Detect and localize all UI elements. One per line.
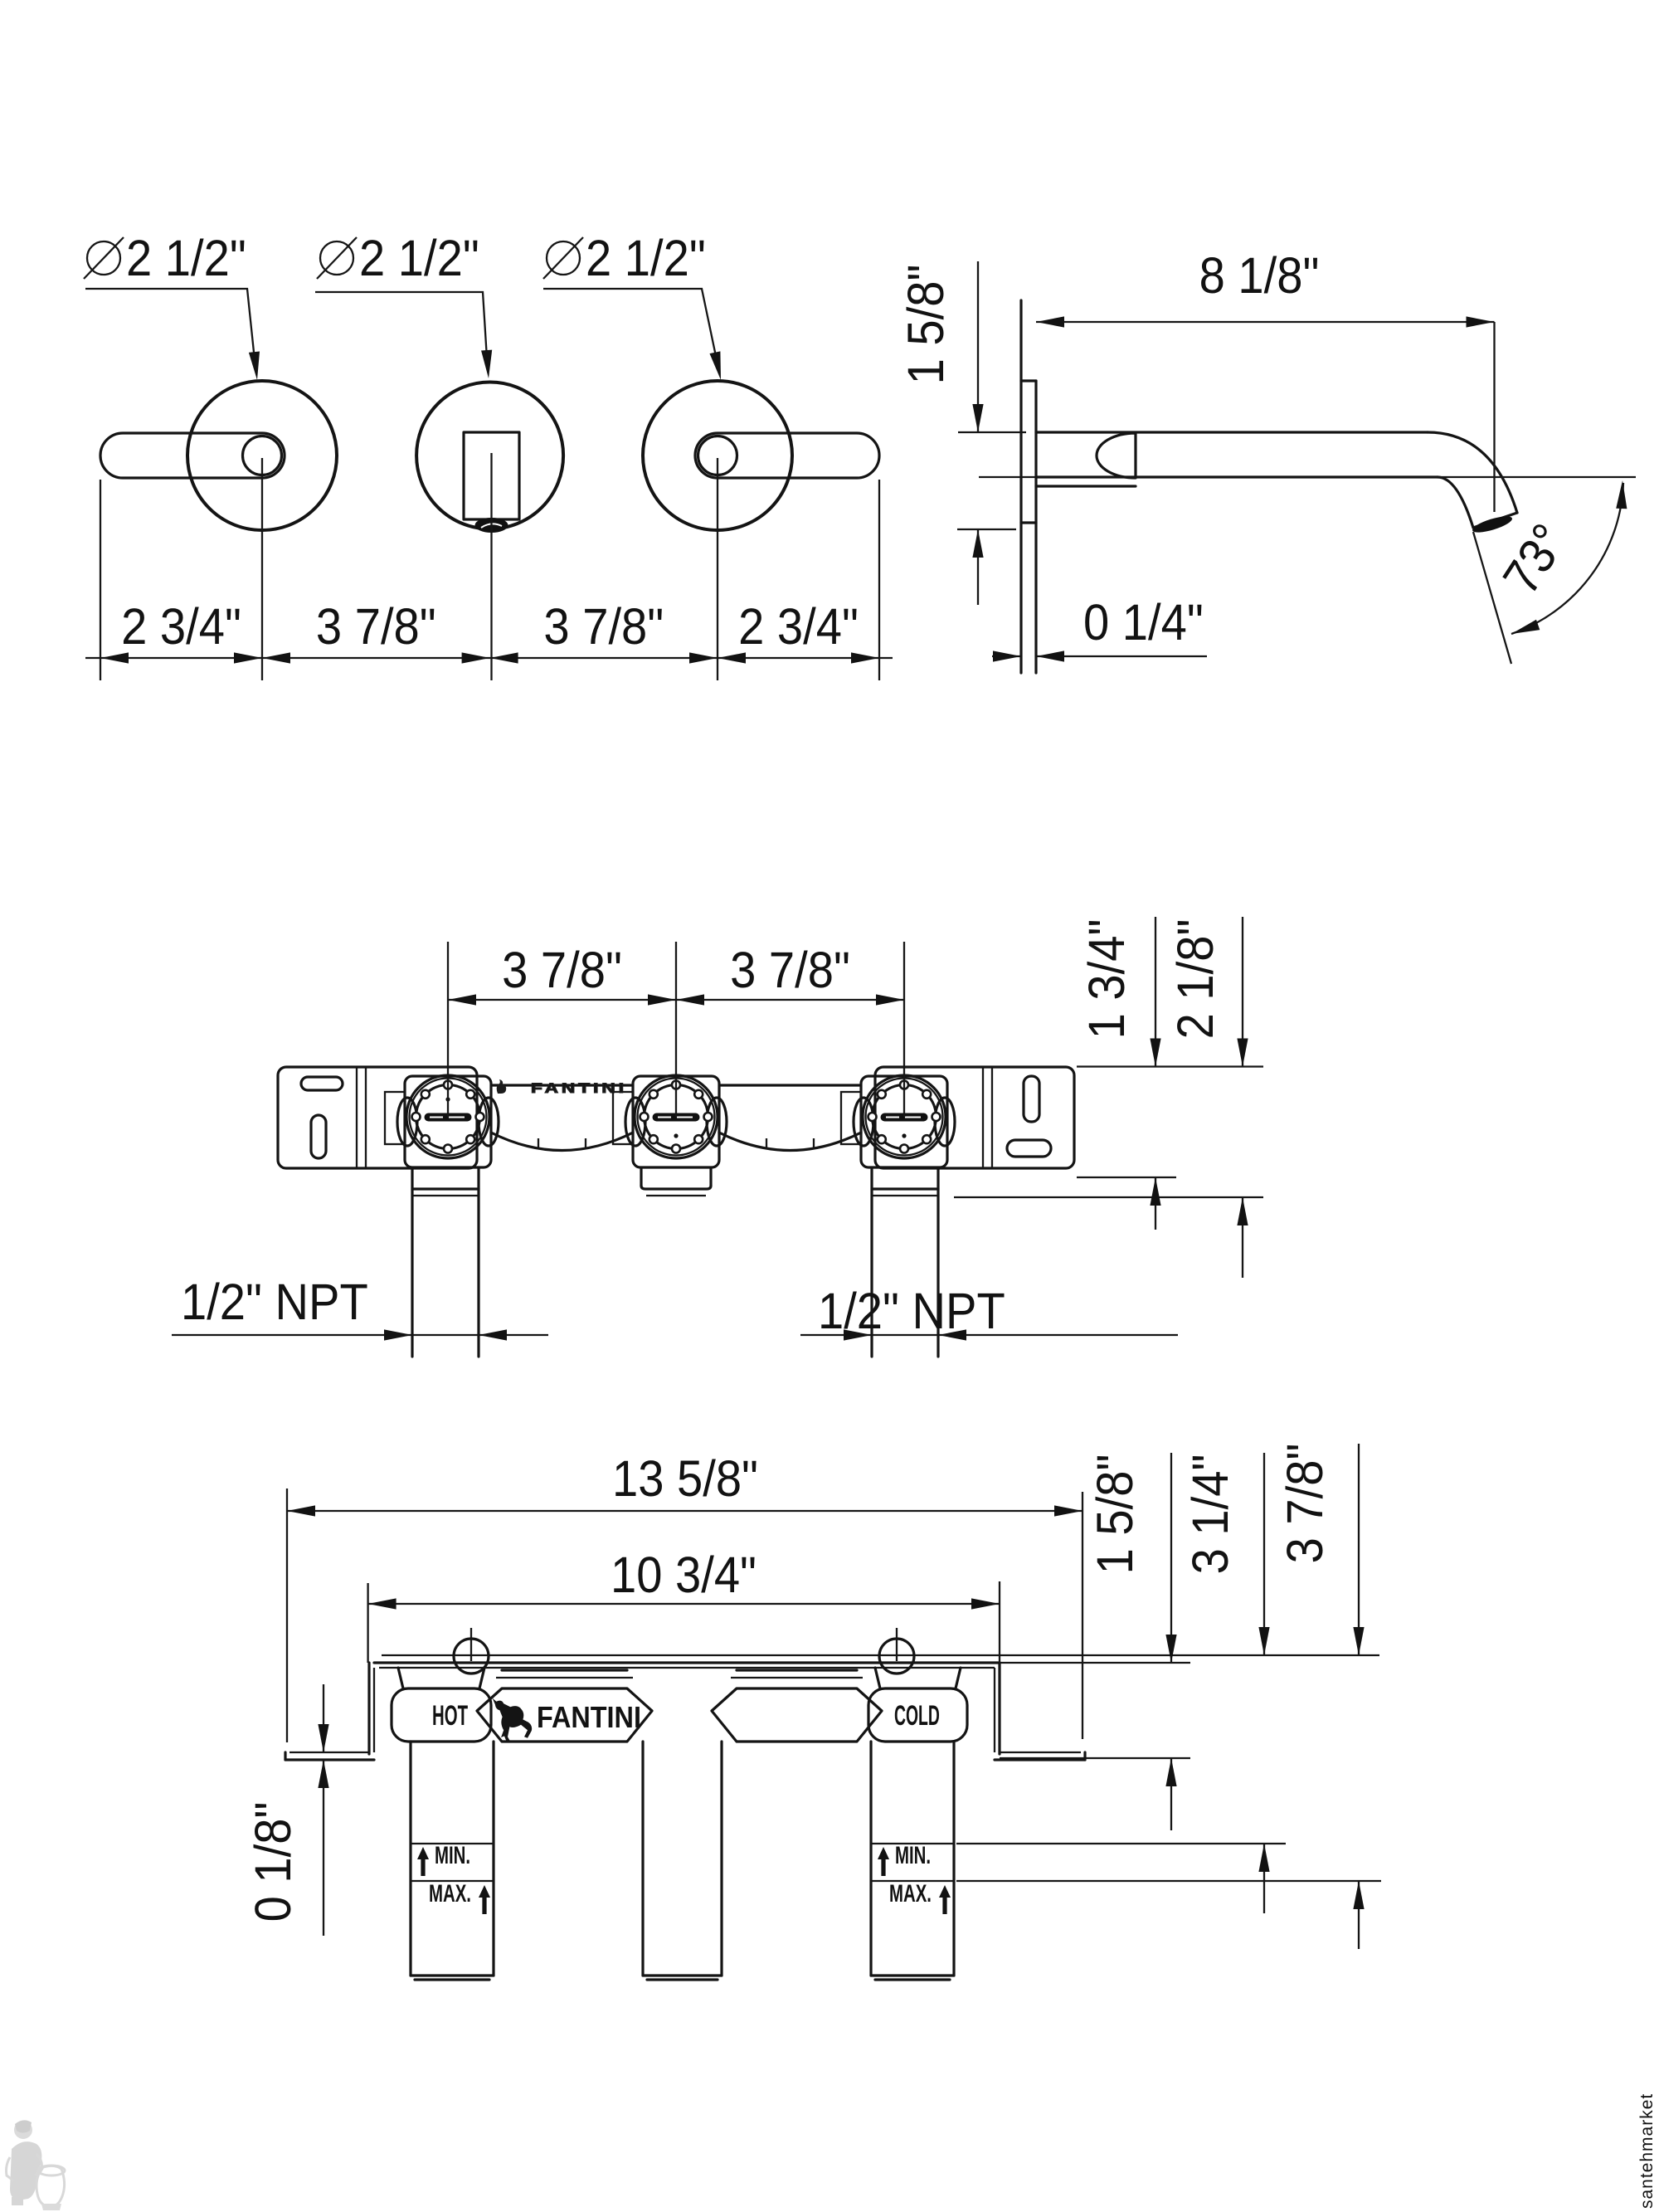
svg-text:3 7/8": 3 7/8" [316, 599, 436, 655]
svg-text:MIN.: MIN. [895, 1842, 931, 1869]
svg-text:COLD: COLD [894, 1699, 940, 1731]
svg-text:0 1/4": 0 1/4" [1083, 595, 1204, 651]
svg-text:2 1/2": 2 1/2" [586, 231, 706, 287]
svg-text:1 5/8": 1 5/8" [1087, 1454, 1144, 1575]
svg-text:1 5/8": 1 5/8" [898, 265, 955, 385]
svg-text:2 1/2": 2 1/2" [126, 231, 246, 287]
svg-text:2 1/8": 2 1/8" [1168, 919, 1224, 1040]
svg-text:MIN.: MIN. [435, 1842, 470, 1869]
svg-text:3 7/8": 3 7/8" [730, 943, 850, 999]
svg-text:10 3/4": 10 3/4" [611, 1547, 757, 1604]
svg-text:1/2" NPT: 1/2" NPT [818, 1284, 1005, 1340]
svg-text:MAX.: MAX. [429, 1880, 471, 1907]
svg-text:3 7/8": 3 7/8" [1277, 1444, 1334, 1564]
svg-text:HOT: HOT [432, 1700, 468, 1732]
svg-text:2 3/4": 2 3/4" [121, 599, 241, 655]
svg-text:MAX.: MAX. [889, 1880, 932, 1907]
svg-text:2 1/2": 2 1/2" [359, 231, 479, 287]
svg-text:13 5/8": 13 5/8" [612, 1451, 758, 1508]
svg-text:0 1/8": 0 1/8" [246, 1802, 302, 1922]
svg-text:3 7/8": 3 7/8" [502, 943, 622, 999]
svg-text:santehmarket: santehmarket [1637, 2093, 1657, 2209]
svg-text:2 3/4": 2 3/4" [738, 599, 859, 655]
svg-text:FANTINI: FANTINI [537, 1701, 641, 1734]
svg-text:3 7/8": 3 7/8" [543, 599, 664, 655]
svg-text:8 1/8": 8 1/8" [1199, 248, 1320, 305]
svg-text:3 1/4": 3 1/4" [1183, 1454, 1239, 1575]
svg-text:1/2" NPT: 1/2" NPT [181, 1274, 368, 1331]
svg-text:1 3/4": 1 3/4" [1079, 919, 1136, 1040]
